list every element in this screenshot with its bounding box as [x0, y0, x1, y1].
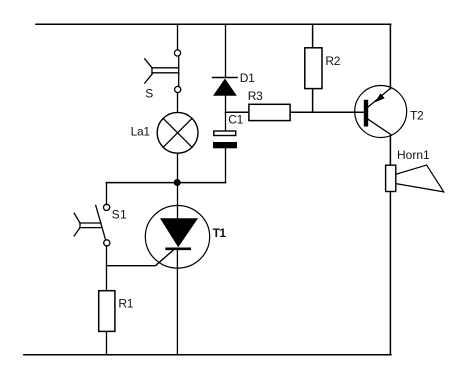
- svg-text:R2: R2: [325, 54, 340, 68]
- svg-text:C1: C1: [228, 112, 243, 126]
- svg-text:T2: T2: [410, 109, 424, 123]
- svg-text:La1: La1: [131, 125, 151, 139]
- svg-text:S: S: [145, 87, 153, 101]
- svg-text:Horn1: Horn1: [397, 148, 430, 162]
- svg-text:T1: T1: [213, 226, 227, 240]
- svg-text:S1: S1: [112, 207, 128, 221]
- svg-text:D1: D1: [240, 71, 255, 85]
- svg-text:R3: R3: [248, 89, 263, 103]
- svg-text:R1: R1: [118, 297, 133, 311]
